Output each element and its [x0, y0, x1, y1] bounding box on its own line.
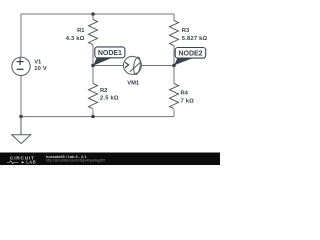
svg-text:2.5 kΩ: 2.5 kΩ: [100, 96, 119, 102]
wire R2 bottom: [92, 110, 94, 117]
resistor R4: [170, 84, 179, 109]
VM1 polarity chevron: [125, 62, 129, 67]
wire R2 top from node A: [92, 66, 94, 84]
svg-text:NODE1: NODE1: [98, 50, 122, 57]
wire right vertical (top wire to R3): [173, 14, 175, 21]
junction dot bottom (R2 / bottom wire): [91, 115, 95, 119]
NODE1 flag box: [95, 47, 125, 58]
resistor R3: [170, 21, 179, 46]
voltage source V1: [12, 57, 30, 75]
wire R4 bottom: [173, 110, 175, 117]
ground: [12, 117, 31, 144]
svg-text:R4: R4: [181, 91, 189, 97]
wire bottom horizontal: [21, 116, 174, 118]
svg-text:7 kΩ: 7 kΩ: [181, 98, 195, 104]
svg-text:http://circuitlab.com/c/6sjx4h: http://circuitlab.com/c/6sjx4hpw9qg5f2: [46, 158, 105, 162]
wire top horizontal: [21, 13, 174, 15]
VM1 gauge dial ellipse: [133, 57, 142, 75]
svg-text:VM1: VM1: [127, 80, 140, 86]
wire R1 bottom to node A: [92, 45, 94, 66]
svg-text:V1: V1: [34, 59, 42, 65]
svg-text:LAB: LAB: [26, 160, 36, 165]
NODE2 flag box: [175, 48, 206, 59]
wire R1 top: [92, 14, 94, 20]
wire left vertical (bottom of V1): [20, 76, 22, 117]
junction dot top (R1 / top wire): [91, 12, 95, 16]
footer logo wave: [7, 161, 18, 164]
wire R3 bottom to node: [173, 46, 175, 66]
svg-text:4.3 kΩ: 4.3 kΩ: [66, 36, 85, 42]
svg-text:R1: R1: [77, 28, 85, 34]
footer logo arrow: [22, 161, 25, 164]
V1 plus sign: [17, 58, 24, 65]
wire R4 top from node B: [173, 65, 175, 83]
resistor R2: [89, 84, 98, 109]
svg-text:R2: R2: [100, 88, 107, 94]
footer bar: [0, 153, 220, 166]
junction dot bottom-left (V1 / ground): [19, 115, 23, 119]
node A junction dot: [91, 64, 95, 68]
node B junction dot: [172, 64, 176, 68]
svg-text:5.827 kΩ: 5.827 kΩ: [182, 36, 208, 42]
svg-text:R3: R3: [182, 28, 190, 34]
svg-text:NODE2: NODE2: [178, 51, 202, 58]
V1 minus sign: [17, 68, 24, 70]
svg-text:10 V: 10 V: [34, 66, 47, 72]
resistor R1: [89, 20, 98, 45]
wire node A to voltmeter: [93, 65, 123, 67]
wire left vertical (top of V1): [20, 14, 22, 57]
voltmeter VM1: [123, 56, 141, 74]
wire voltmeter to node B: [141, 65, 174, 67]
VM1 needle: [130, 62, 141, 72]
NODE1 flag pointer wedge: [93, 57, 113, 65]
NODE2 flag pointer wedge: [174, 58, 193, 65]
